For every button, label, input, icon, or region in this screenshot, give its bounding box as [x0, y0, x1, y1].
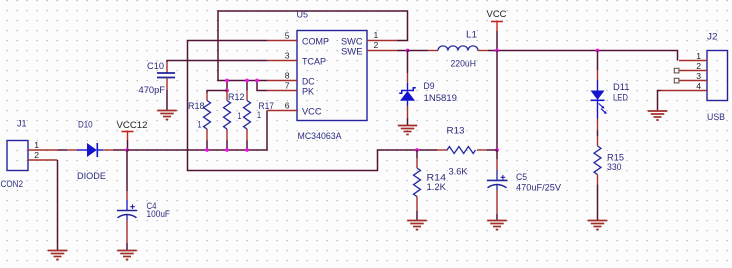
power port VCC: [487, 8, 507, 51]
power port VCC12: [117, 119, 148, 150]
ground at R14: [407, 221, 427, 230]
svg-text:DC: DC: [302, 76, 315, 86]
svg-text:1: 1: [238, 111, 242, 121]
svg-text:100uF: 100uF: [147, 209, 171, 219]
svg-text:R13: R13: [447, 126, 465, 136]
junction R17 top on DC wire: [245, 79, 249, 83]
ground at C5: [487, 221, 507, 230]
svg-text:D11: D11: [613, 82, 630, 92]
svg-text:J1: J1: [17, 119, 27, 129]
resistor R17: [244, 91, 275, 151]
svg-text:5: 5: [285, 30, 290, 40]
wire L1 to VCC node and J2 pin1: [488, 51, 678, 61]
ground at R15: [588, 221, 608, 230]
wire U5 TCAP to C10: [167, 61, 267, 63]
wire VCC12 rail to U5 VCC pin 6: [127, 111, 267, 151]
junction SWE node: [406, 49, 410, 53]
wire J1 pin1 to D10: [58, 149, 67, 151]
svg-text:8: 8: [285, 70, 290, 80]
svg-text:SWE: SWE: [341, 46, 363, 56]
svg-text:1: 1: [374, 30, 379, 40]
wire J1 pin2 to ground: [57, 160, 59, 251]
wire D10 to node VCC12: [113, 149, 127, 151]
resistor R15: [594, 136, 624, 221]
junction R12 bottom: [225, 148, 229, 152]
capacitor C10: [139, 61, 176, 111]
svg-text:U5: U5: [297, 10, 309, 20]
svg-text:PK: PK: [302, 86, 315, 96]
wire VCC node down to C5 and R13: [496, 51, 498, 151]
wire U5 SWC pin1 loop to DC pin8: [218, 11, 408, 81]
svg-text:COMP: COMP: [302, 36, 329, 46]
wire R18 top jog: [207, 91, 227, 94]
svg-text:4: 4: [696, 81, 701, 91]
resistor R13: [417, 126, 497, 177]
svg-text:220uH: 220uH: [451, 59, 477, 69]
junction R13/R14 node: [415, 148, 419, 152]
junction D11 node: [596, 49, 600, 53]
junction R17 bottom: [245, 148, 249, 152]
svg-text:C5: C5: [516, 172, 527, 182]
ground at J2 pin4: [648, 111, 668, 120]
connector J1: [1, 119, 59, 190]
svg-text:7: 7: [285, 80, 290, 90]
svg-text:1: 1: [198, 120, 202, 130]
svg-text:3: 3: [285, 50, 290, 60]
led D11: [591, 51, 630, 137]
junction C5 node: [495, 148, 499, 152]
svg-text:R18: R18: [188, 101, 205, 111]
svg-text:1: 1: [257, 110, 261, 120]
svg-text:D10: D10: [78, 120, 93, 130]
wire U5 COMP to feedback divider: [188, 41, 418, 171]
resistor R18: [188, 93, 211, 151]
svg-text:MC34063A: MC34063A: [298, 131, 343, 141]
svg-text:1.2K: 1.2K: [427, 182, 447, 192]
svg-text:VCC: VCC: [302, 106, 322, 116]
svg-text:470uF/25V: 470uF/25V: [516, 183, 562, 193]
wire J2 pin4 to ground: [658, 91, 680, 112]
wire output rail to L1: [408, 50, 429, 52]
svg-text:SWC: SWC: [341, 36, 363, 46]
junction R18 bottom: [205, 148, 209, 152]
junction R12 top on DC wire: [225, 79, 229, 93]
svg-text:R12: R12: [228, 92, 245, 102]
ground at D9: [398, 126, 418, 135]
connector J2 USB: [674, 32, 727, 123]
ground at C10: [157, 111, 177, 120]
ground at C4: [117, 251, 137, 260]
svg-text:1: 1: [696, 51, 701, 61]
resistor R14: [414, 150, 447, 221]
capacitor C4: [117, 150, 170, 251]
svg-text:470pF: 470pF: [139, 85, 166, 95]
junction node VCC12: [125, 148, 129, 152]
wire R12 top to DC wire: [226, 81, 228, 91]
svg-text:CON2: CON2: [1, 179, 24, 189]
op-amp U5 MC34063A: [267, 10, 397, 142]
inductor L1: [428, 30, 488, 69]
svg-text:LED: LED: [613, 93, 628, 103]
svg-text:R14: R14: [427, 173, 447, 183]
svg-text:L1: L1: [466, 30, 477, 40]
svg-text:2: 2: [34, 150, 39, 160]
svg-text:VCC: VCC: [487, 8, 507, 19]
ground at J1 pin2: [48, 251, 68, 260]
svg-text:1: 1: [34, 140, 39, 150]
svg-text:2: 2: [696, 61, 701, 71]
svg-text:D9: D9: [424, 81, 435, 91]
svg-text:TCAP: TCAP: [302, 56, 326, 66]
svg-text:J2: J2: [707, 32, 718, 42]
svg-text:3: 3: [696, 71, 701, 81]
svg-text:2: 2: [374, 40, 379, 50]
wire DC node to PK pin7: [257, 81, 267, 91]
svg-text:R15: R15: [607, 153, 624, 163]
svg-text:VCC12: VCC12: [117, 119, 148, 130]
svg-text:3.6K: 3.6K: [449, 167, 469, 177]
diode D9 1N5819: [399, 51, 457, 126]
svg-text:1N5819: 1N5819: [424, 93, 458, 103]
resistor R12: [224, 91, 245, 151]
svg-text:C10: C10: [147, 61, 164, 71]
diode D10: [67, 120, 113, 182]
junction PK node: [255, 79, 259, 83]
capacitor C5: [487, 150, 562, 221]
wire U5 SWE pin2 to output rail: [397, 50, 408, 52]
svg-text:330: 330: [607, 162, 622, 172]
junction VCC node: [495, 49, 499, 53]
wire R17 top: [246, 81, 248, 91]
svg-text:6: 6: [285, 100, 290, 110]
svg-text:USB: USB: [707, 112, 725, 122]
svg-text:DIODE: DIODE: [77, 171, 106, 181]
